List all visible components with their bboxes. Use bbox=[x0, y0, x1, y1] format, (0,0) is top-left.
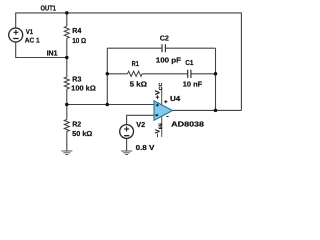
resistor R1 zigzag bbox=[128, 71, 143, 76]
svg-text:10 nF: 10 nF bbox=[183, 79, 203, 88]
junction dot output bbox=[214, 109, 218, 113]
op-amp negative supply rail bbox=[161, 116, 163, 137]
op-amp positive supply rail bbox=[161, 88, 163, 105]
wire R3 top lead bbox=[66, 58, 68, 78]
svg-text:C1: C1 bbox=[185, 58, 193, 67]
svg-text:OUT1: OUT1 bbox=[41, 4, 57, 13]
svg-text:R4: R4 bbox=[72, 26, 81, 35]
wire R2 bottom lead to ground bbox=[66, 132, 68, 152]
wire V2 bottom to ground bbox=[126, 139, 128, 152]
svg-text:50 kΩ: 50 kΩ bbox=[72, 129, 92, 138]
junction dot divider bbox=[65, 103, 69, 107]
svg-text:10 Ω: 10 Ω bbox=[72, 36, 86, 45]
op-amp minus input mark bbox=[156, 114, 159, 116]
wire op-amp output bbox=[173, 109, 242, 111]
svg-text:100 kΩ: 100 kΩ bbox=[71, 83, 96, 92]
V2 minus mark bbox=[124, 135, 129, 137]
svg-text:R1: R1 bbox=[132, 59, 139, 68]
svg-text:V1: V1 bbox=[26, 29, 33, 36]
wire feedback left vertical bbox=[106, 48, 108, 104]
svg-text:C2: C2 bbox=[160, 33, 169, 42]
supply plus mark bbox=[164, 100, 167, 103]
junction dot IN1 bbox=[65, 56, 69, 60]
svg-text:AD8038: AD8038 bbox=[171, 120, 204, 129]
wire R1 left lead bbox=[107, 73, 127, 75]
wire V1 bottom to IN1 bbox=[16, 42, 67, 58]
wire C2 branch left bbox=[107, 47, 162, 49]
op-amp plus input mark bbox=[156, 104, 159, 107]
capacitor C1 plates bbox=[188, 70, 191, 78]
wire V2 to inverting input bbox=[127, 115, 154, 124]
wire R1 to C1 bbox=[142, 73, 188, 75]
svg-text:100 pF: 100 pF bbox=[156, 55, 182, 64]
V1 minus mark bbox=[13, 38, 18, 40]
wire R3 bottom lead bbox=[66, 89, 68, 105]
V2 plus mark bbox=[124, 127, 129, 132]
op-amp U4 triangle bbox=[154, 101, 173, 121]
wire C2 branch right bbox=[165, 47, 215, 49]
svg-text:R2: R2 bbox=[72, 120, 81, 129]
wire feedback right vertical bbox=[215, 48, 217, 110]
junction dot R1 branch bbox=[106, 72, 110, 76]
wire C1 right lead bbox=[191, 73, 216, 75]
wire R4 bottom lead bbox=[66, 38, 68, 57]
svg-text:0.8 V: 0.8 V bbox=[136, 143, 155, 152]
ground (V2) bbox=[121, 151, 132, 155]
wire R2 top lead bbox=[66, 105, 68, 120]
svg-text:V2: V2 bbox=[136, 120, 145, 129]
junction dot C1 right bbox=[214, 72, 218, 76]
supply minus mark bbox=[166, 116, 168, 118]
svg-text:IN1: IN1 bbox=[47, 49, 58, 58]
V1 plus mark bbox=[13, 30, 18, 35]
source V2 circle bbox=[120, 125, 134, 139]
svg-text:R3: R3 bbox=[72, 75, 81, 84]
junction dot OUT1 bbox=[65, 11, 69, 15]
svg-text:5 kΩ: 5 kΩ bbox=[130, 80, 148, 89]
svg-text:U4: U4 bbox=[170, 94, 180, 103]
source V1 circle bbox=[9, 28, 23, 42]
capacitor C2 plates bbox=[162, 44, 165, 52]
resistor R2 zigzag bbox=[64, 120, 69, 132]
svg-text:AC 1: AC 1 bbox=[25, 37, 40, 44]
wire top OUT1 net bbox=[16, 13, 242, 111]
wire R4 top lead bbox=[66, 13, 68, 26]
junction dot feedback tap bbox=[106, 103, 110, 107]
ground (R2) bbox=[61, 151, 72, 155]
wire noninverting input net bbox=[67, 104, 154, 106]
resistor R3 zigzag bbox=[64, 77, 69, 89]
resistor R4 zigzag bbox=[64, 26, 69, 38]
